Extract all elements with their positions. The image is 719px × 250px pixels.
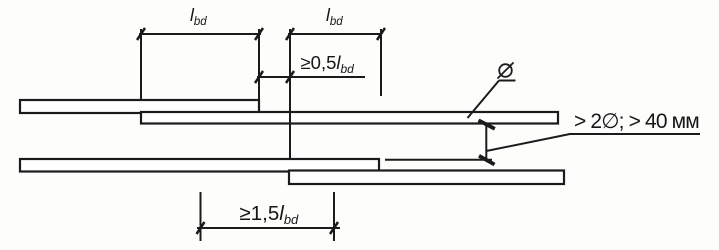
leader shelf under diameter symbol bbox=[499, 80, 516, 82]
label >=1,5 l_bd bbox=[240, 202, 300, 227]
dimension line l_bd (upper-right lap length) bbox=[288, 33, 382, 35]
extension line x=334 (centre of lower lap) bbox=[333, 192, 335, 241]
extension of bar C top edge to receive arrow bbox=[385, 159, 492, 161]
diameter symbol (circle with slash) bbox=[498, 63, 514, 79]
bar D (lower-right rebar) bbox=[289, 171, 564, 185]
svg-text:lbd: lbd bbox=[326, 5, 343, 28]
tick at (334,228) bbox=[330, 222, 338, 234]
leader from diameter symbol to bar B bbox=[468, 81, 500, 119]
dimension line >=0,5 l_bd bbox=[257, 76, 365, 78]
extension line x=259 (end of bar A projected up) bbox=[258, 29, 260, 99]
gap dimension vertical line x=486 bbox=[485, 123, 487, 160]
svg-text:≥1,5lbd: ≥1,5lbd bbox=[240, 202, 300, 227]
extension line x=290 (start of bar D projected up, crosses bars) bbox=[289, 29, 291, 158]
svg-text:lbd: lbd bbox=[190, 5, 207, 28]
arrowhead at top of gap dimension (slanted solid tick) bbox=[479, 120, 495, 129]
dimension line >=1,5 l_bd bbox=[197, 227, 340, 229]
tick at (381,34) bbox=[377, 28, 385, 40]
tick at (290,77) bbox=[286, 71, 294, 83]
tick at (290,34) bbox=[286, 28, 294, 40]
arrowhead at bottom of gap dimension (slanted solid tick) bbox=[479, 156, 495, 165]
svg-text:≥0,5lbd: ≥0,5lbd bbox=[301, 52, 355, 76]
extension line x=381 (end of bar C projected up) bbox=[380, 29, 382, 96]
tick at (259,34) bbox=[255, 28, 263, 40]
extension line x=141 (start of bar B projected up) bbox=[140, 29, 142, 99]
bar C (lower-left rebar) bbox=[20, 159, 379, 172]
tick at (200,228) bbox=[197, 222, 205, 234]
label l_bd (upper-left dimension) bbox=[190, 5, 207, 28]
dimension line l_bd (upper-left lap length) bbox=[139, 33, 261, 35]
svg-text:> 2∅; > 40 мм: > 2∅; > 40 мм bbox=[574, 110, 699, 133]
bar B (upper-right rebar) bbox=[141, 112, 558, 124]
bar A (upper-left rebar) bbox=[20, 100, 259, 113]
note text > 2 dia ; > 40 mm bbox=[574, 110, 699, 133]
leader polyline to note text bbox=[486, 134, 700, 151]
tick at (141,34) bbox=[137, 28, 145, 40]
label >=0,5 l_bd bbox=[301, 52, 355, 76]
label l_bd (upper-right dimension) bbox=[326, 5, 343, 28]
extension line x=200 (centre of upper lap) bbox=[200, 192, 202, 241]
tick at (259,77) bbox=[255, 71, 263, 83]
